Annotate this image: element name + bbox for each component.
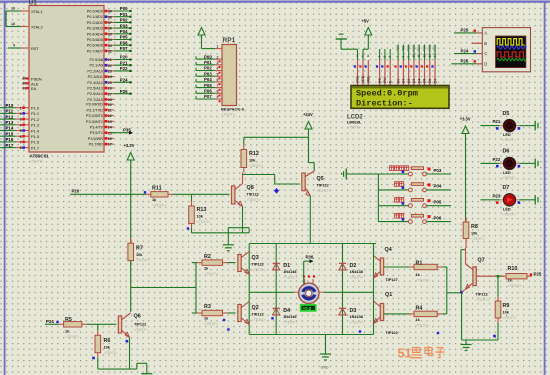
svg-text:P0.5/AD5: P0.5/AD5 bbox=[87, 38, 103, 42]
wire RST to sheet edge bbox=[8, 47, 21, 49]
svg-text:+5V: +5V bbox=[362, 19, 370, 24]
pin P0.2 (37) bbox=[104, 21, 114, 23]
svg-text:2: 2 bbox=[362, 54, 364, 58]
svg-text:Q2: Q2 bbox=[252, 305, 259, 311]
pin RP1.8 bbox=[215, 92, 222, 94]
svg-text:R13: R13 bbox=[197, 207, 207, 213]
svg-text:<TEXT>: <TEXT> bbox=[136, 259, 151, 263]
svg-text:14: 14 bbox=[433, 54, 437, 58]
svg-text:8: 8 bbox=[217, 90, 219, 94]
wire net P06 to RP1 bbox=[196, 92, 215, 94]
svg-text:RESPACK-8: RESPACK-8 bbox=[221, 107, 245, 112]
resistor R2 bbox=[197, 262, 202, 264]
svg-text:P00: P00 bbox=[396, 45, 400, 51]
svg-text:<TEXT>: <TEXT> bbox=[416, 324, 431, 328]
svg-text:6: 6 bbox=[388, 56, 392, 58]
svg-text:13: 13 bbox=[108, 120, 112, 124]
pin PSEN (29) bbox=[22, 78, 29, 80]
pin P1.1 (2) bbox=[16, 112, 29, 114]
svg-text:R5: R5 bbox=[65, 317, 72, 323]
svg-text:P12: P12 bbox=[6, 114, 14, 119]
wire crystal vertical bbox=[5, 11, 7, 27]
pin P2.7 (28) bbox=[104, 98, 114, 100]
svg-text:LED: LED bbox=[503, 171, 511, 175]
wire emitter node vertical bbox=[460, 250, 462, 293]
wire net P22 bbox=[114, 70, 131, 72]
wire button 4 to net P06 bbox=[426, 221, 451, 223]
wire D1 column bbox=[275, 244, 277, 293]
svg-text:R12: R12 bbox=[249, 151, 259, 157]
svg-text:R3: R3 bbox=[204, 304, 211, 310]
svg-text:9: 9 bbox=[13, 44, 15, 48]
svg-text:P20: P20 bbox=[72, 189, 80, 194]
wire Q1 base to R4 bbox=[384, 313, 409, 315]
svg-text:P3.4/T0: P3.4/T0 bbox=[90, 126, 103, 130]
svg-text:RW: RW bbox=[383, 77, 387, 83]
svg-text:VDD: VDD bbox=[361, 75, 365, 83]
svg-text:D: D bbox=[484, 61, 487, 66]
svg-text:21: 21 bbox=[108, 58, 112, 62]
svg-text:D6: D6 bbox=[428, 79, 432, 83]
svg-text:8: 8 bbox=[20, 146, 22, 150]
svg-text:P2.0/A8: P2.0/A8 bbox=[89, 58, 103, 62]
scope trace D green bbox=[497, 58, 526, 60]
wire net P17 bbox=[0, 147, 16, 149]
svg-text:39: 39 bbox=[108, 10, 112, 14]
svg-text:27: 27 bbox=[108, 92, 112, 96]
svg-text:22: 22 bbox=[108, 64, 112, 68]
wire motor to node P36 bbox=[303, 261, 305, 283]
wire to button 3 bbox=[378, 205, 408, 207]
wire to button 2 bbox=[378, 189, 408, 191]
svg-text:P35: P35 bbox=[123, 127, 131, 132]
svg-text:P1.2: P1.2 bbox=[31, 117, 39, 122]
wire Q8 collector node to Q5 base bbox=[243, 174, 275, 176]
pin P3.4 (14) bbox=[104, 126, 114, 128]
svg-text:<TEXT>: <TEXT> bbox=[104, 351, 119, 355]
wire net P00 to RP1 bbox=[196, 58, 215, 60]
svg-text:33: 33 bbox=[108, 44, 112, 48]
pin LCD D2 (9) bbox=[408, 60, 410, 85]
svg-text:1: 1 bbox=[20, 106, 22, 110]
resistor R10 bbox=[501, 275, 506, 277]
svg-text:<TEXT>: <TEXT> bbox=[134, 328, 149, 332]
svg-text:P0.4/AD4: P0.4/AD4 bbox=[87, 32, 103, 36]
svg-text:P24: P24 bbox=[120, 78, 128, 83]
pin RP1.9 bbox=[215, 98, 222, 100]
pin LCD D3 (10) bbox=[413, 60, 415, 85]
sheet border bbox=[0, 1, 550, 3]
svg-text:1N4148: 1N4148 bbox=[350, 270, 363, 274]
svg-text:P06: P06 bbox=[120, 40, 128, 45]
wire R1 R4 junction bbox=[442, 266, 447, 268]
svg-text:P01: P01 bbox=[401, 45, 405, 51]
resistor R3 bbox=[197, 312, 202, 314]
svg-text:2: 2 bbox=[20, 112, 22, 116]
svg-text:P1.0: P1.0 bbox=[31, 106, 40, 111]
svg-text:P02: P02 bbox=[204, 66, 212, 71]
wire LCD D3 bbox=[413, 45, 415, 61]
svg-text:P03: P03 bbox=[412, 45, 416, 51]
svg-text:D2: D2 bbox=[350, 263, 357, 269]
wire net P13 bbox=[0, 124, 16, 126]
svg-text:P01: P01 bbox=[204, 60, 212, 65]
svg-text:10k: 10k bbox=[471, 232, 478, 236]
svg-text:P04: P04 bbox=[120, 29, 128, 34]
resistor R1 bbox=[409, 266, 414, 268]
wire net P03 to RP1 bbox=[196, 75, 215, 77]
wire LCD VSS to ground bbox=[340, 39, 342, 49]
svg-text:11: 11 bbox=[108, 109, 112, 113]
svg-text:LED: LED bbox=[503, 207, 511, 211]
wire R5 to Q6 base bbox=[87, 323, 117, 325]
wire RP1 pin1 to +5V bbox=[201, 36, 203, 49]
resistor R12 bbox=[243, 145, 245, 150]
svg-text:RST: RST bbox=[31, 46, 39, 51]
svg-text:3: 3 bbox=[367, 54, 369, 58]
svg-text:1: 1 bbox=[356, 54, 358, 58]
wire net P35 bbox=[112, 132, 131, 134]
svg-text:<TEXT>: <TEXT> bbox=[204, 322, 219, 326]
svg-text:Q6: Q6 bbox=[134, 314, 141, 320]
wire Q6 emitter down bbox=[129, 338, 131, 370]
svg-text:17: 17 bbox=[108, 143, 112, 147]
svg-text:51: 51 bbox=[398, 347, 412, 361]
ground for Q7 bbox=[465, 340, 467, 344]
resistor R8 bbox=[465, 217, 467, 222]
pin XTAL2 (18) bbox=[21, 26, 29, 28]
resistor R4 bbox=[409, 313, 414, 315]
pin LCD VEE (3) bbox=[367, 60, 369, 85]
pin XTAL1 (19) bbox=[21, 10, 29, 12]
svg-text:30: 30 bbox=[23, 82, 27, 86]
svg-text:<TEXT>: <TEXT> bbox=[350, 321, 365, 325]
pin LCD VSS (1) bbox=[357, 60, 359, 85]
node P25 at R10 bbox=[530, 273, 532, 275]
svg-text:2: 2 bbox=[217, 55, 219, 59]
pin P0.0 (39) bbox=[104, 10, 114, 12]
svg-text:29: 29 bbox=[23, 77, 27, 81]
wire net P00 bbox=[114, 10, 131, 12]
svg-text:D3: D3 bbox=[350, 308, 357, 314]
wire net P01 to RP1 bbox=[196, 64, 215, 66]
svg-text:<TEXT>: <TEXT> bbox=[317, 189, 332, 193]
svg-text:P2.4/A12: P2.4/A12 bbox=[87, 81, 103, 85]
pin P2.0 (21) bbox=[104, 59, 114, 61]
svg-text:RS: RS bbox=[378, 78, 382, 83]
wire net P10 bbox=[0, 107, 16, 109]
svg-text:<TEXT>: <TEXT> bbox=[508, 284, 523, 288]
wire net P16 bbox=[0, 141, 16, 143]
diode D3 bbox=[339, 309, 346, 315]
resistor R9 bbox=[497, 296, 499, 301]
pin RP1.4 bbox=[215, 70, 222, 72]
wire R12 top to +24V rail bbox=[243, 137, 245, 144]
wire R2 R3 left column bbox=[195, 263, 197, 313]
pin P1.5 (6) bbox=[16, 135, 29, 137]
svg-text:P3.1/TXD: P3.1/TXD bbox=[87, 108, 104, 112]
svg-text:9: 9 bbox=[407, 56, 411, 58]
wire R11 to Q8 base bbox=[173, 193, 230, 195]
svg-text:+24V: +24V bbox=[303, 112, 313, 117]
ground for D7 bbox=[534, 195, 536, 205]
svg-text:Q7: Q7 bbox=[478, 258, 485, 264]
diode D2 bbox=[339, 264, 346, 270]
svg-text:23: 23 bbox=[108, 70, 112, 74]
wire button 3 to net P05 bbox=[426, 205, 451, 207]
svg-text:D7: D7 bbox=[433, 79, 437, 83]
svg-text:D4: D4 bbox=[417, 79, 421, 83]
svg-text:10k: 10k bbox=[104, 346, 111, 350]
svg-text:<TEXT>: <TEXT> bbox=[247, 198, 262, 202]
svg-text:P0.0/AD0: P0.0/AD0 bbox=[87, 10, 103, 14]
wire R7 bottom to Q6 collector bbox=[130, 261, 132, 312]
svg-text:P06: P06 bbox=[428, 45, 432, 51]
svg-text:XTAL2: XTAL2 bbox=[31, 25, 43, 30]
wire R9 top bbox=[497, 276, 499, 301]
wire button 1 to net P03 bbox=[426, 173, 451, 175]
node indicator near Q2 bbox=[227, 328, 229, 330]
wire H-bridge left rail bbox=[248, 244, 250, 335]
wire net P03 bbox=[114, 27, 131, 29]
svg-text:D0: D0 bbox=[396, 79, 400, 83]
svg-text:P03: P03 bbox=[204, 71, 212, 76]
node indicator near Q1 bbox=[359, 330, 361, 332]
svg-text:9: 9 bbox=[217, 95, 219, 99]
svg-text:A: A bbox=[484, 30, 487, 35]
svg-text:4: 4 bbox=[217, 67, 219, 71]
svg-text:P1.4: P1.4 bbox=[31, 128, 40, 133]
wire LCD D4 bbox=[418, 45, 420, 61]
svg-text:<TEXT>: <TEXT> bbox=[204, 272, 219, 276]
wire net P12 bbox=[0, 118, 16, 120]
svg-text:TIP122: TIP122 bbox=[134, 323, 146, 327]
svg-text:R8: R8 bbox=[471, 224, 478, 230]
svg-text:1N4148: 1N4148 bbox=[283, 315, 296, 319]
scope trace C red bbox=[497, 52, 524, 57]
svg-text:P36: P36 bbox=[306, 254, 314, 259]
pin P1.0 (1) bbox=[16, 107, 29, 109]
svg-text:LM016L: LM016L bbox=[347, 120, 362, 125]
wire H-bridge right rail bbox=[373, 244, 375, 335]
pin P2.4 (25) bbox=[104, 81, 114, 83]
svg-text:P1.6: P1.6 bbox=[31, 140, 39, 145]
svg-text:P0.1/AD1: P0.1/AD1 bbox=[87, 15, 103, 19]
svg-text:R6: R6 bbox=[104, 338, 111, 344]
pin P3.6 (16) bbox=[104, 137, 114, 139]
ground for Q8 emitter bbox=[223, 244, 234, 246]
svg-text:P25: P25 bbox=[120, 89, 128, 94]
svg-text:38: 38 bbox=[108, 15, 112, 19]
svg-text:D5: D5 bbox=[423, 79, 427, 83]
svg-text:+0.0: +0.0 bbox=[303, 306, 312, 311]
svg-text:P22: P22 bbox=[120, 66, 128, 71]
wire XTAL2 to sheet edge bbox=[6, 26, 21, 28]
push button 4 bbox=[395, 213, 399, 218]
svg-text:R9: R9 bbox=[503, 303, 510, 309]
wire D6 to ground bbox=[520, 162, 536, 164]
svg-text:12: 12 bbox=[423, 54, 427, 58]
svg-text:P14: P14 bbox=[6, 126, 14, 131]
pin P0.7 (32) bbox=[104, 50, 114, 52]
scope trace A yellow bbox=[497, 39, 524, 45]
svg-text:Q5: Q5 bbox=[317, 176, 324, 182]
wire LCD D2 bbox=[408, 45, 410, 61]
wire R6 bottom rail bbox=[97, 358, 99, 369]
pin P0.4 (35) bbox=[104, 33, 114, 35]
pin RP1.7 bbox=[215, 87, 222, 89]
svg-text:P2.6/A14: P2.6/A14 bbox=[87, 92, 103, 96]
ground for H-bridge bbox=[325, 335, 327, 354]
svg-text:1N4148: 1N4148 bbox=[283, 270, 296, 274]
oscilloscope bbox=[477, 32, 483, 34]
svg-text:10: 10 bbox=[412, 54, 416, 58]
pin LCD D0 (7) bbox=[397, 60, 399, 85]
svg-text:P15: P15 bbox=[6, 131, 14, 136]
wire R2 to Q3 base bbox=[228, 262, 236, 264]
svg-text:P3.7/RD: P3.7/RD bbox=[89, 143, 104, 147]
pin P0.1 (38) bbox=[104, 16, 114, 18]
pin RST (9) bbox=[21, 47, 29, 49]
wire Q5 emitter to H-bridge top rail bbox=[309, 196, 311, 244]
svg-text:P2.1/A9: P2.1/A9 bbox=[89, 64, 103, 68]
wire to R10 bbox=[498, 275, 504, 277]
wire LCD RS bbox=[379, 49, 381, 60]
wire net P20 bbox=[114, 59, 131, 61]
svg-text:P00: P00 bbox=[204, 54, 212, 59]
push button 3 bbox=[395, 198, 399, 203]
svg-text:P0.2/AD2: P0.2/AD2 bbox=[87, 21, 103, 25]
svg-text:P04: P04 bbox=[434, 184, 442, 189]
svg-text:<TEXT>: <TEXT> bbox=[283, 276, 298, 280]
wire Q8 collector to R12 bbox=[242, 173, 244, 184]
pin LCD D6 (13) bbox=[429, 60, 431, 85]
svg-text:D2: D2 bbox=[407, 79, 411, 83]
pin P3.5 (15) bbox=[104, 132, 114, 134]
svg-text:3: 3 bbox=[217, 61, 219, 65]
svg-text:AT89C51: AT89C51 bbox=[30, 154, 50, 159]
svg-text:28: 28 bbox=[108, 98, 112, 102]
svg-text:<TEXT>: <TEXT> bbox=[502, 176, 517, 180]
svg-text:<TEXT>: <TEXT> bbox=[503, 316, 518, 320]
svg-text:34: 34 bbox=[108, 38, 112, 42]
svg-text:32: 32 bbox=[108, 50, 112, 54]
svg-text:P04: P04 bbox=[417, 45, 421, 51]
pin RP1.2 bbox=[215, 58, 222, 60]
svg-text:P24: P24 bbox=[46, 319, 54, 324]
svg-text:TIP122: TIP122 bbox=[386, 331, 398, 335]
svg-text:P06: P06 bbox=[204, 89, 212, 94]
wire LCD D7 bbox=[434, 45, 436, 61]
svg-text:18: 18 bbox=[11, 22, 15, 26]
ground for D5 bbox=[534, 121, 536, 131]
pin P1.4 (5) bbox=[16, 130, 29, 132]
svg-text:Q1: Q1 bbox=[385, 292, 392, 298]
ground at bottom edge bbox=[141, 373, 152, 375]
svg-text:P1.3: P1.3 bbox=[31, 123, 39, 128]
push button 2 bbox=[395, 182, 399, 187]
svg-text:10k: 10k bbox=[249, 159, 256, 163]
svg-text:19: 19 bbox=[11, 7, 15, 11]
svg-text:6: 6 bbox=[20, 135, 22, 139]
wire net P21 to D5 bbox=[481, 125, 500, 127]
push button 1 bbox=[390, 166, 394, 171]
wire buttons common bbox=[346, 173, 378, 175]
svg-text:P21: P21 bbox=[120, 60, 128, 65]
svg-text:<TEXT>: <TEXT> bbox=[283, 321, 298, 325]
pin RP1.3 bbox=[215, 64, 222, 66]
svg-text:P20: P20 bbox=[120, 55, 128, 60]
resistor R5 bbox=[59, 323, 64, 325]
svg-text:P0.7/AD7: P0.7/AD7 bbox=[87, 49, 103, 53]
svg-text:<TEXT>: <TEXT> bbox=[249, 164, 264, 168]
wire R6 top bbox=[97, 324, 99, 330]
svg-text:P02: P02 bbox=[407, 45, 411, 51]
wire +3.3V to R8 bbox=[465, 135, 467, 222]
wire LCD D0 bbox=[397, 45, 399, 61]
wire junction to Q7 emitter node bbox=[447, 292, 461, 294]
svg-text:P2.2/A10: P2.2/A10 bbox=[87, 69, 103, 73]
svg-text:P04: P04 bbox=[204, 77, 212, 82]
svg-text:P07: P07 bbox=[204, 94, 212, 99]
wire to button 4 bbox=[378, 221, 408, 223]
svg-text:14: 14 bbox=[108, 126, 112, 130]
svg-text:GND: GND bbox=[321, 366, 329, 370]
svg-text:P3.5/T1: P3.5/T1 bbox=[90, 131, 103, 135]
pin P3.0 (10) bbox=[104, 103, 114, 105]
pin P2.6 (27) bbox=[104, 93, 114, 95]
svg-text:Direction:-: Direction:- bbox=[356, 98, 413, 108]
pin P3.7 (17) bbox=[104, 143, 114, 145]
wire button 2 to net P04 bbox=[426, 189, 451, 191]
svg-text:R10: R10 bbox=[508, 266, 518, 272]
wire LCD RW bbox=[384, 49, 386, 60]
svg-text:31: 31 bbox=[23, 86, 27, 90]
svg-text:Q4: Q4 bbox=[385, 247, 392, 253]
svg-text:C: C bbox=[484, 51, 487, 56]
svg-text:P1.7: P1.7 bbox=[31, 145, 39, 150]
oscilloscope screen bbox=[496, 36, 526, 68]
motor brush terminals bbox=[303, 275, 305, 277]
svg-text:P1.5: P1.5 bbox=[31, 134, 39, 139]
svg-text:11: 11 bbox=[417, 54, 421, 58]
svg-text:8: 8 bbox=[401, 56, 405, 58]
svg-text:<TEXT>: <TEXT> bbox=[221, 113, 236, 117]
wire R8 bottom bbox=[465, 244, 467, 249]
wire R13 bottom to ground loop bbox=[191, 229, 193, 233]
wire Q4 base to R1 bbox=[384, 266, 409, 268]
svg-text:25: 25 bbox=[108, 81, 112, 85]
svg-text:P05: P05 bbox=[434, 200, 442, 205]
power +5V for RP1 bbox=[198, 28, 205, 36]
svg-text:+3.3V: +3.3V bbox=[124, 143, 135, 148]
wire motor row right bbox=[319, 291, 374, 293]
resistor R13 bbox=[191, 201, 193, 206]
svg-text:15: 15 bbox=[108, 131, 112, 135]
wire to ground bottom bbox=[136, 363, 138, 369]
svg-text:P13: P13 bbox=[6, 120, 14, 125]
svg-text:R1: R1 bbox=[416, 261, 423, 267]
wire net P23 to D7 bbox=[481, 199, 500, 201]
wire P20 to R11 bbox=[70, 193, 146, 195]
wire net P04 bbox=[114, 33, 131, 35]
svg-text:4: 4 bbox=[20, 123, 22, 127]
pin LCD D1 (8) bbox=[402, 60, 404, 85]
svg-text:<TEXT>: <TEXT> bbox=[502, 138, 517, 142]
wire net P14 bbox=[0, 130, 16, 132]
wire LCD E bbox=[389, 49, 391, 60]
motor bbox=[294, 291, 299, 293]
